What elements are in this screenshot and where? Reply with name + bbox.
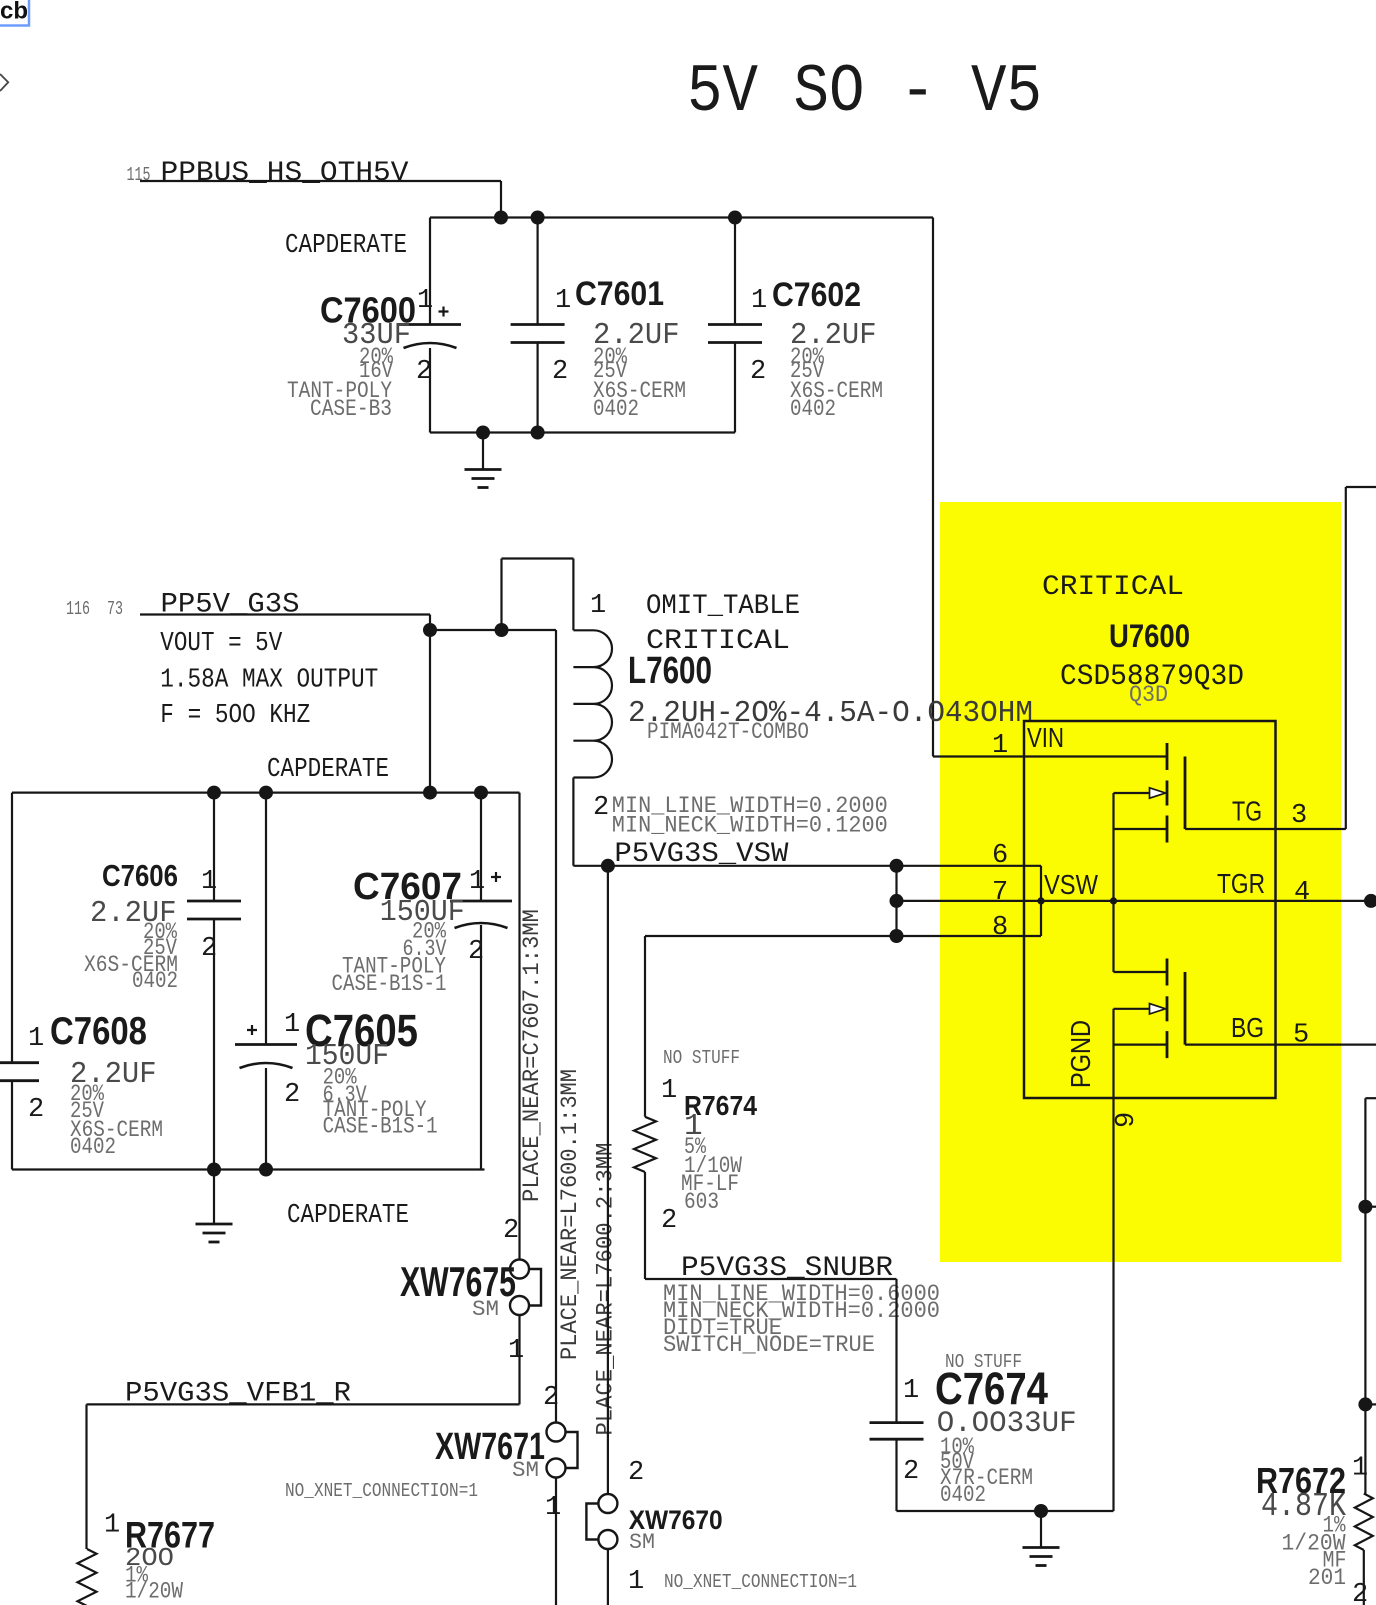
svg-text:1: 1 (1352, 1454, 1368, 1484)
capacitor C7608 (11, 793, 13, 1063)
capacitor C7600 (429, 218, 431, 325)
top MOSFET of U7600 (1166, 743, 1169, 770)
svg-text:PPBUS_HS_OTH5V: PPBUS_HS_OTH5V (161, 158, 409, 189)
svg-text:2: 2 (543, 1383, 559, 1413)
wire inductor feed loop (500, 559, 502, 631)
svg-text:1/20W: 1/20W (125, 1579, 183, 1605)
svg-text:6: 6 (992, 841, 1008, 871)
BG wire pin 5 (1185, 1043, 1376, 1045)
svg-text:OMIT_TABLE: OMIT_TABLE (646, 591, 800, 622)
svg-text:cb: cb (0, 0, 28, 25)
svg-text:NO STUFF: NO STUFF (663, 1047, 740, 1069)
svg-text:BG: BG (1231, 1012, 1264, 1043)
svg-text:PGND: PGND (1065, 1020, 1096, 1088)
svg-text:C7602: C7602 (772, 276, 861, 314)
svg-text:TG: TG (1232, 796, 1262, 827)
svg-text:7: 7 (992, 878, 1008, 908)
svg-text:2: 2 (416, 357, 432, 387)
junction dots PP5V (423, 623, 437, 637)
wire bank2 bottom rail (12, 1168, 485, 1170)
resistor R7674 (634, 1117, 656, 1172)
wire R7674 to snubber net (644, 1172, 646, 1279)
ground C7674 (1040, 1511, 1042, 1548)
svg-text:1: 1 (628, 1567, 644, 1597)
wire top fet gate node (1112, 793, 1114, 972)
svg-text:C7606: C7606 (102, 858, 178, 893)
svg-text:SM: SM (472, 1297, 499, 1322)
svg-text:CASE-B1S-1: CASE-B1S-1 (332, 971, 447, 997)
wire off-page net to R7672 (1365, 1097, 1376, 1099)
svg-text:CASE-B1S-1: CASE-B1S-1 (323, 1114, 438, 1140)
svg-text:1: 1 (508, 1336, 524, 1366)
wire top rail (430, 216, 933, 218)
svg-text:PLACE_NEAR=L7600.2:3MM: PLACE_NEAR=L7600.2:3MM (593, 1143, 619, 1436)
svg-text:CAPDERATE: CAPDERATE (267, 755, 389, 785)
wire C7674 to pin9 (897, 1510, 1114, 1512)
yellow highlight region around U7600 (940, 502, 1341, 1262)
jumper XW7675 (510, 1260, 529, 1279)
capacitor C7605 (265, 793, 267, 1045)
svg-text:8: 8 (992, 913, 1008, 943)
svg-text:2: 2 (1352, 1580, 1368, 1605)
wire PP5V to inductor (430, 629, 556, 631)
wire XW7670 down (607, 1549, 609, 1605)
svg-text:2: 2 (903, 1457, 919, 1487)
svg-text:115: 115 (127, 164, 151, 186)
junction dots top rail (494, 211, 508, 225)
svg-text:Q3D: Q3D (1129, 682, 1168, 708)
svg-text:2: 2 (593, 793, 609, 823)
capacitor C7607 (480, 793, 482, 901)
capacitor C7602 (734, 218, 736, 325)
svg-text:U7600: U7600 (1109, 618, 1190, 654)
svg-text:3: 3 (1291, 801, 1307, 831)
svg-text:73: 73 (107, 598, 123, 620)
IC body U7600 (1024, 721, 1276, 1098)
svg-text:9: 9 (1112, 1112, 1142, 1128)
svg-text:1: 1 (903, 1376, 919, 1406)
svg-text:SWITCH_NODE=TRUE: SWITCH_NODE=TRUE (663, 1332, 875, 1358)
svg-text:0402: 0402 (132, 968, 178, 994)
svg-text:1: 1 (469, 867, 485, 897)
svg-text:C7608: C7608 (50, 1010, 147, 1053)
wire pin8 / snubber branch (645, 935, 1041, 937)
wire bottom fet source / pin 9 (1112, 1009, 1114, 1511)
svg-text:C7601: C7601 (575, 275, 664, 313)
wire P5VG3S_VFB1_R (87, 1403, 520, 1405)
svg-text:CAPDERATE: CAPDERATE (285, 231, 407, 261)
svg-text:0402: 0402 (940, 1482, 986, 1508)
pin 1 VIN wire (933, 755, 1167, 757)
svg-text:116: 116 (66, 598, 90, 620)
svg-text:2: 2 (28, 1095, 44, 1125)
bottom MOSFET of U7600 (1114, 971, 1168, 973)
jumper XW7670 (598, 1494, 617, 1513)
find-bar input box with text cb (0, 0, 29, 26)
svg-text:L7600: L7600 (628, 650, 712, 692)
svg-text:TGR: TGR (1217, 868, 1265, 899)
svg-text:0402: 0402 (593, 396, 639, 422)
svg-text:NO_XNET_CONNECTION=1: NO_XNET_CONNECTION=1 (285, 1480, 478, 1502)
wire bank2 top rail (12, 791, 520, 793)
wire VIN drop (932, 218, 934, 757)
svg-text:4: 4 (1294, 878, 1310, 908)
ground bank2 (213, 1170, 215, 1225)
wire bottom rail (430, 431, 735, 433)
svg-text:1: 1 (590, 591, 606, 621)
svg-text:1.58A MAX OUTPUT: 1.58A MAX OUTPUT (160, 665, 378, 695)
svg-text:CASE-B3: CASE-B3 (310, 396, 392, 422)
wire PPBUS_HS_OTH5V to rail (140, 180, 501, 182)
svg-text:2: 2 (284, 1080, 300, 1110)
svg-text:VIN: VIN (1027, 722, 1064, 753)
svg-text:PLACE_NEAR=C7607.1:3MM: PLACE_NEAR=C7607.1:3MM (519, 909, 545, 1202)
junction dots bottom rail (476, 426, 490, 440)
ground top capacitor bank (482, 433, 484, 470)
svg-text:1: 1 (751, 286, 767, 316)
svg-text:1: 1 (28, 1024, 44, 1054)
svg-text:1: 1 (417, 286, 433, 316)
svg-text:0402: 0402 (70, 1134, 116, 1160)
jumper XW7671 (547, 1423, 566, 1442)
inductor L7600 (573, 559, 612, 866)
svg-text:2: 2 (628, 1458, 644, 1488)
svg-text:2: 2 (750, 357, 766, 387)
svg-text:0402: 0402 (790, 396, 836, 422)
svg-text:MIN_NECK_WIDTH=0.1200: MIN_NECK_WIDTH=0.1200 (612, 813, 888, 839)
wire TG to off-page (1345, 487, 1347, 829)
wire VSW bracket (1040, 866, 1042, 936)
svg-text:PIMA042T-COMBO: PIMA042T-COMBO (647, 719, 809, 745)
svg-text:5V SO - V5: 5V SO - V5 (687, 54, 1042, 131)
svg-text:F = 5OO KHZ: F = 5OO KHZ (160, 701, 310, 731)
wire P5VG3S_VSW (573, 865, 1041, 867)
sidebar chevron (0, 74, 8, 91)
svg-text:1: 1 (992, 731, 1008, 761)
svg-text:VOUT = 5V: VOUT = 5V (160, 629, 283, 659)
svg-text:1: 1 (545, 1493, 561, 1523)
svg-text:CRITICAL: CRITICAL (1042, 572, 1184, 603)
svg-text:1: 1 (661, 1076, 677, 1106)
svg-text:201: 201 (1308, 1565, 1346, 1591)
svg-text:VSW: VSW (1044, 869, 1098, 900)
svg-text:1: 1 (555, 286, 571, 316)
svg-text:2: 2 (661, 1206, 677, 1236)
svg-text:2: 2 (552, 357, 568, 387)
wire PP5V_G3S net (140, 613, 430, 615)
svg-text:CAPDERATE: CAPDERATE (287, 1201, 409, 1231)
svg-text:2: 2 (468, 937, 484, 967)
TG wire pin 3 (1185, 828, 1346, 830)
wire TGR net (897, 900, 1376, 902)
wire P5VG3S_SNUBR (645, 1278, 897, 1280)
svg-text:1: 1 (201, 867, 217, 897)
svg-text:SM: SM (512, 1458, 539, 1483)
wire long vertical to XW7671 (555, 630, 557, 1423)
svg-text:5: 5 (1293, 1021, 1309, 1051)
wire XW7675 to VFB1 net (518, 1315, 520, 1404)
svg-text:1: 1 (104, 1511, 120, 1541)
wire VSW to XW7670 (607, 866, 609, 1494)
wire rail to XW7675 (518, 793, 520, 1260)
svg-text:PLACE_NEAR=L7600.1:3MM: PLACE_NEAR=L7600.1:3MM (557, 1069, 583, 1360)
resistor R7677 (78, 1549, 97, 1605)
stub wires to sheet edge (1365, 1206, 1376, 1208)
svg-text:2: 2 (503, 1216, 519, 1246)
svg-text:NO_XNET_CONNECTION=1: NO_XNET_CONNECTION=1 (664, 1571, 857, 1593)
svg-text:603: 603 (684, 1189, 719, 1215)
svg-text:PP5V_G3S: PP5V_G3S (161, 590, 300, 621)
wire XW7671 down (555, 1478, 557, 1605)
capacitor C7674 (895, 1279, 897, 1423)
wire VSW pins tie (895, 866, 897, 936)
svg-text:SM: SM (629, 1530, 655, 1555)
capacitor C7606 (213, 793, 215, 901)
capacitor C7601 (536, 218, 538, 325)
svg-text:2: 2 (201, 934, 217, 964)
svg-text:1: 1 (284, 1010, 300, 1040)
